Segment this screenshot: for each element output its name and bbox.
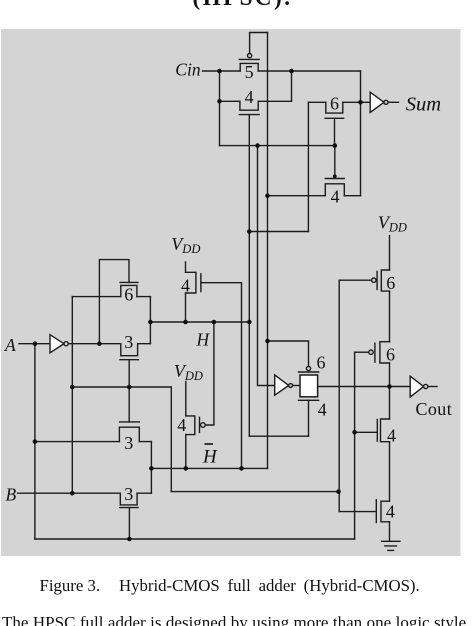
- node row231/V2: [247, 229, 252, 234]
- wire row231 H to sum pass: [249, 231, 308, 233]
- svg-text:A: A: [4, 335, 16, 355]
- svg-text:3: 3: [124, 484, 133, 504]
- node N3d gate/row539: [127, 537, 132, 542]
- transistor N3a (left pair lower): [120, 344, 150, 360]
- wire row539 A distribution: [35, 538, 355, 540]
- wire N3d right: [137, 492, 151, 494]
- pmos bubble XOR: [306, 366, 310, 370]
- transistor P6a (Cout pull-up B): [377, 270, 389, 291]
- wire row341 Hbar to XOR pgate: [268, 341, 309, 366]
- wire V6 B net vertical: [338, 280, 340, 511]
- transistor N6 (sum stage): [325, 102, 344, 118]
- wire P6b gate to A: [355, 351, 369, 353]
- wire Cin vertical V1: [219, 71, 221, 146]
- transistor P4d (feedback PMOS lower): [186, 416, 200, 435]
- node V8/row388: [70, 385, 75, 390]
- transistor P5 (PMOS of transmission gate): [239, 59, 259, 71]
- svg-text:6: 6: [386, 273, 395, 293]
- svg-text:3: 3: [124, 433, 133, 453]
- node Hrow/V2: [247, 320, 252, 325]
- svg-text:4: 4: [331, 186, 340, 206]
- pmos bubble P4d: [201, 423, 206, 428]
- wire N4a gate to A: [355, 431, 378, 433]
- svg-text:3: 3: [124, 332, 133, 352]
- node Hrow/P4u: [183, 320, 188, 325]
- svg-text:6: 6: [386, 345, 395, 365]
- inverter U2 (Cin to XOR box): [275, 375, 293, 395]
- wire V150 H node riser: [149, 297, 151, 344]
- pmos bubble P6b: [369, 350, 373, 354]
- node V241/row469: [239, 466, 244, 471]
- node Hrow left: [148, 320, 153, 325]
- wire V8 B riser: [71, 297, 73, 494]
- node row3/N6 gate: [333, 143, 338, 148]
- wire XOR inverter output: [292, 385, 300, 387]
- node Cin/row1: [217, 69, 222, 74]
- wire H tap down: [206, 322, 214, 425]
- svg-text:Sum: Sum: [406, 94, 441, 116]
- inverter U1 (A input): [50, 335, 68, 353]
- wire V5: [307, 102, 309, 231]
- wire V360 sum column: [360, 71, 362, 196]
- inverter U4 (Cout output): [410, 376, 428, 397]
- wire VDD1 stub: [185, 262, 187, 272]
- wire row1 right (TG output to Sum column): [258, 70, 360, 72]
- svg-text:Cin: Cin: [175, 59, 201, 79]
- transistor N4 (NMOS of transmission gate): [239, 101, 259, 114]
- wire N6 gate stub: [334, 118, 336, 145]
- node row195/V4: [265, 193, 270, 198]
- XOR transmission box: [300, 375, 318, 397]
- transistor N4a (Cout pull-down A): [377, 419, 389, 442]
- wire row3 (Cin distribution): [220, 145, 335, 147]
- wire Cout node to inverter: [390, 386, 411, 388]
- svg-text:4: 4: [177, 415, 186, 435]
- pmos bubble P6a: [372, 278, 376, 282]
- node gate stub/row388: [127, 385, 132, 390]
- node V151/row469: [149, 466, 154, 471]
- svg-text:4: 4: [318, 400, 327, 420]
- transistor N3c: [119, 422, 139, 442]
- node row2b/V360: [358, 100, 363, 105]
- wire N3d gate stub: [128, 508, 130, 539]
- wire TG output riser: [291, 71, 293, 101]
- ground: [382, 541, 400, 550]
- svg-text:Cout: Cout: [416, 399, 453, 419]
- svg-text:4: 4: [181, 276, 190, 296]
- pmos bubble P5: [248, 54, 252, 58]
- wire V7 A riser: [354, 352, 356, 539]
- wire N4b gate to B: [339, 511, 376, 513]
- node P4s gate bubble: [333, 174, 337, 178]
- wire Cout node down: [389, 387, 391, 420]
- svg-text:6: 6: [317, 353, 326, 373]
- inverter U3 (Sum output): [370, 92, 388, 112]
- wire N3a/N3c gate stub: [128, 360, 130, 422]
- node A col/row441: [33, 439, 38, 444]
- node Abar/loop: [97, 341, 102, 346]
- wire row195: [268, 195, 361, 197]
- wire P6a-P6b link: [389, 291, 391, 342]
- svg-text:B: B: [6, 484, 17, 504]
- wire row297: [72, 296, 150, 298]
- svg-text:6: 6: [124, 285, 133, 305]
- svg-text:4: 4: [386, 501, 395, 521]
- node row3/V3: [255, 143, 260, 148]
- wire P4u gate to Hbar: [201, 283, 242, 469]
- wire A column: [34, 344, 36, 539]
- wire sum inverter output: [388, 101, 399, 103]
- wire V3 Cin to XOR inverter: [258, 146, 275, 386]
- transistor N3d: [120, 493, 138, 507]
- wire P5 gate loop to Hbar: [250, 33, 268, 54]
- transistor P6L (left pair upper): [120, 282, 138, 296]
- wire row469 Hbar: [151, 467, 267, 469]
- transistor P6b (Cout pull-up A): [375, 342, 390, 363]
- wire Cin input: [203, 70, 241, 72]
- transistor P4u (feedback PMOS upper): [186, 272, 201, 293]
- node V4/row341: [265, 339, 270, 344]
- node V6/row491: [336, 489, 341, 494]
- wire Cout inverter output: [428, 386, 437, 388]
- svg-text:4: 4: [387, 425, 396, 445]
- node Hrow/Htap: [212, 320, 217, 325]
- node V7/N4a gate: [352, 430, 357, 435]
- wire row2 (TG lower): [220, 100, 292, 102]
- wire H row: [150, 321, 249, 323]
- node V8/B row: [70, 491, 75, 496]
- wire V171 B jog: [170, 387, 172, 492]
- svg-text:6: 6: [330, 93, 339, 113]
- wire P6b drain to Cout node: [389, 363, 391, 387]
- wire gate link to P4s: [334, 146, 336, 175]
- wire row441: [35, 441, 151, 443]
- node Cout node: [387, 384, 392, 389]
- wire XOR output row: [318, 386, 390, 388]
- wire Abar row: [68, 343, 121, 345]
- wire A input: [19, 343, 50, 345]
- node V1/row2: [217, 99, 222, 104]
- wire XOR ngate down: [308, 400, 310, 436]
- XOR box gate plates: [299, 372, 319, 400]
- wire row436 H to XOR ngate: [249, 435, 308, 437]
- node P4d/row469: [184, 466, 189, 471]
- wire N4a-N4b link: [389, 442, 391, 502]
- svg-text:4: 4: [245, 87, 254, 107]
- wire V151 Hbar chain: [150, 442, 152, 494]
- wire P6a gate to B: [339, 279, 371, 281]
- wire VDD2 stub: [185, 382, 187, 416]
- svg-text:H: H: [196, 330, 211, 350]
- wire row2b (sum stage): [308, 101, 370, 103]
- node A wire: [33, 341, 38, 346]
- wire VDD3 stub: [389, 236, 391, 270]
- svg-text:5: 5: [245, 62, 254, 82]
- wire P4d drain to Hbar row: [185, 435, 187, 469]
- wire B input row: [18, 492, 121, 494]
- wire vertical Hbar long (V4): [267, 33, 269, 469]
- wire row491 B to right: [171, 491, 338, 493]
- node row1/TG out: [289, 69, 294, 74]
- wire V2 H net vertical: [248, 115, 250, 437]
- wire P4u drain to H row: [185, 293, 187, 322]
- wire P6L gate loop: [99, 260, 129, 344]
- transistor N4b (Cout pull-down B): [376, 500, 389, 523]
- wire row388 B branch: [72, 386, 171, 388]
- transistor P4s (sum stage): [325, 179, 344, 196]
- svg-text:H: H: [202, 447, 218, 468]
- wire N4b to ground: [389, 522, 391, 542]
